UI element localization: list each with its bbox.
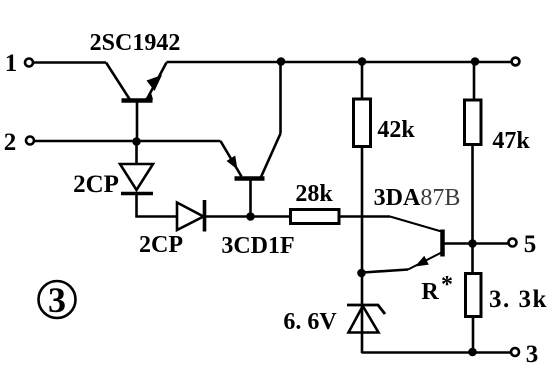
svg-text:*: * [441, 272, 453, 298]
svg-text:3: 3 [48, 280, 66, 320]
terminal top-right [512, 58, 520, 66]
svg-text:3DA87B: 3DA87B [374, 185, 461, 211]
svg-text:1: 1 [5, 50, 18, 77]
wire lower horizontal [136, 215, 292, 218]
svg-text:3: 3 [526, 341, 539, 368]
svg-text:6. 6V: 6. 6V [283, 309, 337, 335]
transistor Q1 base lead [136, 101, 139, 143]
terminal 3 [511, 348, 519, 356]
svg-text:42k: 42k [377, 117, 415, 143]
transistor Q3 collector diagonal [390, 217, 442, 232]
zener D3 cathode bar with hook [347, 305, 385, 314]
diode D1 cathode lead [135, 194, 138, 218]
node top of 42k [358, 57, 367, 66]
svg-text:2CP: 2CP [139, 232, 183, 258]
svg-text:2: 2 [4, 129, 17, 156]
resistor R1 28k [291, 210, 340, 224]
diode D2 2CP cathode bar [203, 200, 207, 232]
wire terminal1 to Q1 collector [34, 61, 107, 64]
svg-text:3CD1F: 3CD1F [221, 233, 294, 259]
transistor Q1 collector diagonal [106, 63, 130, 100]
transistor Q2 base lead [249, 179, 252, 217]
transistor Q2 3CD1F emitter diagonal with arrow [221, 141, 242, 177]
zener D3 triangle [349, 306, 379, 333]
svg-text:3. 3k: 3. 3k [489, 286, 548, 313]
node Q2 base / wire [246, 212, 255, 221]
diode D1 2CP cathode bar [121, 192, 153, 196]
svg-text:47k: 47k [492, 128, 530, 154]
wire 28k to Q3 collector [339, 215, 390, 218]
wire terminal2 to Q2 emitter [35, 140, 221, 143]
svg-text:R: R [421, 279, 439, 305]
wire top rail [167, 61, 512, 64]
wire top to 47k [473, 63, 476, 100]
terminal 5 [509, 239, 517, 247]
diode D1 2CP anode lead [135, 142, 138, 164]
transistor Q1 emitter diagonal with arrow [147, 63, 167, 100]
svg-text:2SC1942: 2SC1942 [90, 30, 181, 56]
resistor R3 47k [465, 100, 482, 145]
diode D2 2CP triangle [177, 203, 204, 231]
transistor Q2 collector vertical [279, 62, 282, 134]
transistor Q2 collector diagonal [261, 134, 281, 178]
node top of Q2 collector [277, 57, 286, 66]
transistor Q1 base bar [122, 98, 153, 103]
terminal 1 [25, 59, 33, 67]
node base divider [468, 239, 477, 248]
wire 42k down to emitter node [361, 147, 364, 274]
svg-text:28k: 28k [295, 181, 333, 207]
zener D3 lead through symbol [361, 273, 364, 353]
figure number circled 3 [39, 281, 76, 318]
transistor Q3 base wire to terminal 5 [444, 242, 509, 245]
wire top to 42k [361, 63, 364, 99]
resistor R4 3.3k [466, 274, 482, 317]
wire 47k down to 3.3k [471, 145, 474, 274]
node base Q1 / diode D1 [132, 137, 141, 146]
terminal 2 [26, 137, 34, 145]
node emitter/zener/42k [357, 269, 366, 278]
wire Q3 emitter to node [363, 270, 408, 273]
resistor R2 42k [354, 99, 371, 147]
wire bottom rail [362, 351, 512, 354]
diode D1 2CP triangle [120, 164, 153, 190]
wire 3.3k to bottom rail [472, 317, 475, 353]
transistor Q2 base bar [235, 176, 265, 181]
svg-text:5: 5 [524, 231, 537, 258]
node top of 47k [471, 57, 480, 66]
transistor Q3 base bar [440, 230, 445, 257]
svg-text:2CP: 2CP [73, 171, 119, 198]
transistor Q3 emitter diagonal with arrow [408, 253, 442, 270]
node bottom 3.3k [468, 348, 477, 357]
